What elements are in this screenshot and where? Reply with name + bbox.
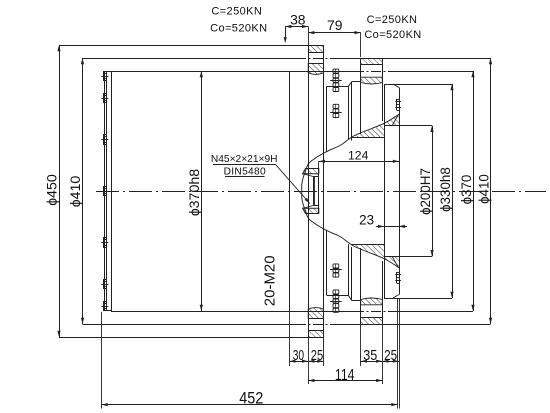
svg-text:20-M20: 20-M20: [262, 255, 279, 306]
extension line diam450 bottom: [59, 337, 324, 339]
svg-text:N45×2×21×9H: N45×2×21×9H: [211, 154, 278, 165]
stud stack 3: [333, 264, 339, 268]
centerline (main axis): [96, 191, 546, 193]
dim diam410 right: [490, 58, 492, 324]
svg-text:114: 114: [335, 367, 355, 384]
bell outer left face: [326, 87, 328, 152]
svg-text:35: 35: [363, 348, 377, 364]
svg-text:ɸ410: ɸ410: [477, 174, 492, 204]
plate B bore chamfer top: [392, 114, 399, 126]
svg-text:ɸ410: ɸ410: [68, 176, 84, 208]
extension line diam450 top: [59, 45, 308, 47]
cover bolt 7: [104, 302, 107, 311]
svg-text:C=250KN: C=250KN: [211, 6, 262, 18]
bell cavity curve: [302, 114, 399, 267]
svg-text:ɸ330h8: ɸ330h8: [438, 167, 453, 212]
drum right end face: [289, 71, 291, 311]
left flange hatch top inner: [308, 64, 323, 75]
plate A hatch top outer: [361, 59, 383, 65]
plate B bottom edge: [384, 298, 393, 300]
left flange body: [308, 45, 310, 337]
bell step lines bottom: [348, 244, 350, 295]
bell cylinder top: [327, 86, 349, 88]
svg-text:ɸ370: ɸ370: [459, 175, 474, 205]
svg-text:25: 25: [384, 348, 397, 364]
extension line diam200 bottom: [384, 256, 432, 258]
svg-text:38: 38: [290, 12, 306, 28]
cover bolt 4: [104, 187, 107, 196]
bell step lines top: [348, 87, 350, 140]
svg-text:ɸ450: ɸ450: [45, 174, 61, 206]
cover bolt 5: [104, 238, 107, 248]
left flange hatch top outer: [309, 46, 324, 53]
cover bolt 2: [104, 94, 107, 103]
dim 23: [376, 226, 407, 228]
svg-text:ɸ370h8: ɸ370h8: [187, 169, 203, 216]
svg-text:Co=520KN: Co=520KN: [210, 22, 267, 34]
svg-text:DIN5480: DIN5480: [224, 166, 266, 177]
dim 79: [308, 32, 361, 34]
svg-text:Co=520KN: Co=520KN: [364, 29, 421, 41]
cover bolt 3: [104, 135, 107, 145]
spline leader: [275, 164, 310, 203]
spline hub top band: [303, 169, 319, 174]
svg-text:124: 124: [348, 148, 369, 162]
plate B right face full: [399, 88, 401, 295]
extension line diam370 top: [289, 71, 354, 73]
plate A hatch top inner: [361, 77, 383, 84]
stud stack 1: [333, 69, 339, 73]
dim 452: [102, 404, 398, 406]
left flange hatch bottom outer: [309, 331, 324, 338]
plate A hatch bottom inner: [361, 298, 383, 305]
dim diam370h8: [201, 71, 203, 311]
plate B left face: [384, 84, 386, 298]
extension line diam370 bottom: [289, 311, 354, 313]
small bolt bottom right: [396, 272, 398, 283]
drum shell outline: [112, 72, 290, 312]
cover bolt 1: [104, 72, 107, 81]
dim 35-25 right: [361, 361, 399, 363]
stud stack 2: [333, 104, 339, 108]
dim 124: [319, 161, 399, 163]
extension line diam200 top: [384, 125, 432, 127]
dim 38: [285, 26, 308, 28]
spline hub bottom band: [303, 208, 319, 213]
dim diam330h8: [452, 84, 454, 298]
svg-text:452: 452: [239, 390, 263, 408]
dim 30-25 left: [289, 361, 323, 363]
extension line diam330 bottom: [384, 298, 452, 300]
svg-text:79: 79: [327, 17, 343, 33]
svg-text:23: 23: [359, 213, 374, 228]
witness lines bottom: [289, 311, 291, 366]
bell cylinder bottom: [327, 295, 349, 297]
svg-text:25: 25: [311, 348, 323, 364]
drum end disc plates: [104, 72, 106, 311]
dim 114: [308, 380, 382, 382]
extension line diam410 bottom: [83, 324, 297, 326]
small bolt top right: [396, 99, 398, 110]
plate A hatch bottom outer: [361, 318, 383, 325]
cover bolt 6: [104, 280, 107, 289]
cone hatch band upper: [352, 114, 400, 138]
plate A faces: [360, 58, 362, 134]
dim diam200H7: [432, 126, 434, 256]
spline hub bore: [313, 177, 315, 206]
plate B bore chamfer bottom: [392, 256, 399, 268]
cone hatch band lower: [352, 244, 400, 268]
plate B top edge: [384, 84, 393, 86]
svg-text:ɸ200H7: ɸ200H7: [418, 168, 433, 215]
dim diam410: [82, 58, 84, 324]
left flange hatch bottom inner: [308, 308, 323, 319]
dim diam370 right: [473, 71, 475, 311]
spline hub right face: [318, 169, 320, 214]
svg-text:C=250KN: C=250KN: [367, 14, 418, 26]
dim diam450: [59, 45, 61, 337]
extension line diam410 top: [83, 58, 297, 60]
stud stack 4: [333, 290, 339, 294]
svg-text:30: 30: [293, 348, 304, 364]
extension line diam330 top: [384, 84, 452, 86]
